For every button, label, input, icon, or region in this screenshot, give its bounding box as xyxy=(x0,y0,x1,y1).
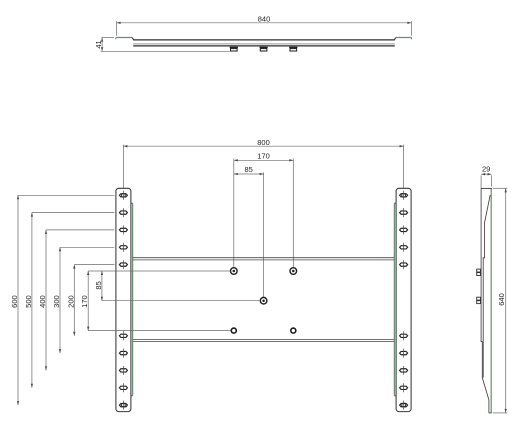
svg-text:41: 41 xyxy=(94,40,103,48)
svg-text:170: 170 xyxy=(80,295,89,308)
svg-text:200: 200 xyxy=(66,295,75,308)
svg-text:640: 640 xyxy=(497,293,506,306)
svg-text:600: 600 xyxy=(10,295,19,308)
svg-text:170: 170 xyxy=(257,151,270,160)
svg-text:800: 800 xyxy=(257,138,270,147)
svg-text:85: 85 xyxy=(245,165,253,174)
svg-text:29: 29 xyxy=(482,164,490,173)
svg-text:500: 500 xyxy=(24,295,33,308)
svg-text:400: 400 xyxy=(38,295,47,308)
svg-text:840: 840 xyxy=(258,14,271,23)
svg-text:85: 85 xyxy=(94,281,103,289)
svg-text:300: 300 xyxy=(52,295,61,308)
